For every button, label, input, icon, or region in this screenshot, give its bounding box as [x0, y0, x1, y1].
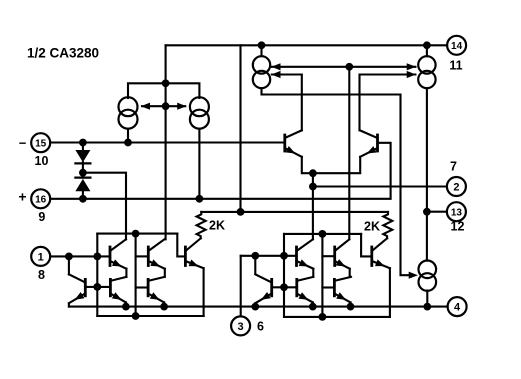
wire diode midpoint tap [83, 173, 126, 240]
junction dot (284,255.8) [280, 252, 288, 260]
label 8 [38, 268, 45, 282]
wire node B horizontal y=233.9 [284, 233, 361, 235]
junction dot (125.9,306.6) [122, 303, 130, 311]
resistor R1 2K (left) [197, 212, 206, 238]
wire CS3 bottom to CS5 arrow run [262, 88, 410, 275]
svg-text:7: 7 [450, 160, 457, 174]
label minus [19, 135, 27, 150]
svg-text:4: 4 [454, 302, 461, 314]
junction dot (427.3,306.6) [423, 303, 431, 311]
junction dot (165.6,106.2) [162, 102, 170, 110]
pin 15 terminal [31, 133, 50, 152]
label 2K right [364, 220, 380, 234]
transistor Q6A-lower [148, 277, 165, 307]
wire bias vertical x=240.5 [239, 45, 241, 212]
wire pin 15 net (- input to Q1A base) [50, 141, 285, 143]
wire Q4B collector drop [254, 256, 256, 274]
svg-text:10: 10 [35, 154, 49, 168]
junction dot (255.3,306.6) [251, 303, 259, 311]
junction dot (312.9,186.5) [309, 183, 317, 191]
transistor Q3B [372, 238, 390, 268]
transistor Q5A-lower [110, 277, 126, 307]
svg-text:−: − [19, 135, 27, 150]
svg-text:15: 15 [35, 138, 47, 149]
current source CS5 (output lower right) [419, 261, 437, 291]
wire resistor top tie y=211.9 [201, 211, 388, 213]
label 9 [38, 210, 45, 224]
wire vertical x=349.3 (mirror line to Q2B2 collector) [348, 67, 350, 240]
junction dot (82.9,142.5) [79, 139, 87, 147]
arrowhead line2 left [271, 71, 280, 78]
junction dot (199.4,198.8) [196, 195, 204, 203]
junction dot (97.3,256.4) [93, 253, 101, 261]
wire pin 1 net [50, 255, 110, 257]
wire top rail (pin 14 net) [166, 44, 448, 46]
svg-text:13: 13 [451, 207, 463, 218]
junction dot (312.9,173.2) [309, 169, 317, 177]
pin 1 terminal [31, 247, 50, 266]
label 10 [35, 154, 49, 168]
junction dot (426.9,211.7) [423, 208, 431, 216]
wire vertical x=135.6 [135, 234, 137, 316]
transistor Q1B-diff (right of diff pair) [360, 130, 378, 157]
transistor Q5B-lower [297, 277, 314, 307]
svg-text:2: 2 [453, 181, 459, 193]
arrowhead left-mirror right [177, 103, 186, 110]
wire CS4 bottom vertical [426, 88, 428, 260]
wire Q5A base tap [136, 286, 149, 288]
wire vertical x=165.6 (top rail to Q2B collector) [165, 45, 167, 239]
junction dot (349.3,66.8) [345, 63, 353, 71]
wire node B right drop to Q3B base [361, 234, 372, 257]
junction dot (322.4,233.9) [319, 230, 327, 238]
pin 3 terminal [231, 316, 250, 335]
wire node A left drop x=97.3 [96, 234, 98, 316]
wire left mirror coupling arrow [142, 105, 185, 107]
transistor Q1A-diff (left of diff pair) [285, 130, 302, 157]
junction dot (255.3,255.8) [251, 252, 259, 260]
junction dot (135.6,233.6) [132, 230, 140, 238]
wire CS4 top drop [426, 45, 428, 56]
wire left mirror CS2 bottom drop [198, 129, 200, 199]
wire Q5B base tap [322, 286, 334, 288]
svg-text:9: 9 [38, 210, 45, 224]
current source CS2 (left mirror right) [190, 97, 209, 129]
arrowhead left-mirror left [141, 103, 150, 110]
transistor Q1A [110, 239, 126, 277]
junction dot (135.6,316) [132, 312, 140, 320]
label 12 [451, 220, 465, 234]
svg-text:1/2 CA3280: 1/2 CA3280 [27, 46, 99, 61]
wire node A right drop to Q3A base [177, 234, 185, 257]
wire coupling arrow line 2 right segment [360, 75, 416, 131]
wire vertical x=312.9 (emitter node to Q1B2 collector) [312, 173, 314, 239]
transistor Q6B-lower [334, 277, 351, 307]
transistor Q2B2 [335, 239, 350, 277]
label 6 [257, 320, 264, 334]
current source CS3 (top left) [253, 56, 270, 88]
arrowhead line2 right [407, 71, 416, 78]
wire bottom rail (pin 4 net) [69, 306, 448, 308]
diode D1 [75, 143, 90, 178]
svg-text:+: + [18, 189, 26, 205]
junction dot (312.8,306.6) [309, 303, 317, 311]
junction dot (164.1,306.6) [160, 303, 168, 311]
junction dot (97.3,286.9) [93, 283, 101, 291]
transistor Q4A [69, 274, 85, 306]
pin 14 terminal [447, 36, 466, 55]
label 11 [449, 59, 462, 73]
diode D2 [75, 178, 90, 199]
svg-text:14: 14 [451, 41, 463, 52]
wire diff pair emitter node [302, 157, 360, 173]
wire Q3B emitter drop [389, 268, 391, 317]
wire coupling arrow line 1 [272, 66, 416, 68]
transistor Q4B [255, 274, 271, 306]
label 7 [450, 160, 457, 174]
arrowhead into CS5 [409, 272, 418, 279]
wire Q4A/Q5A base tie [85, 286, 110, 288]
label plus [18, 189, 26, 205]
svg-text:16: 16 [35, 195, 47, 206]
pin 13 terminal [447, 202, 466, 221]
junction dot (82.9,198.8) [79, 195, 87, 203]
svg-text:3: 3 [238, 321, 244, 333]
junction dot (128,142.5) [124, 139, 132, 147]
wire CS3 top drop [260, 45, 262, 56]
wire pin 3 drop [240, 256, 242, 317]
svg-text:11: 11 [449, 59, 462, 73]
wire CS5 bottom drop [426, 291, 428, 307]
svg-text:1: 1 [38, 251, 44, 263]
transistor Q2A [148, 239, 165, 277]
svg-text:6: 6 [257, 320, 264, 334]
wire rail2 right cluster [284, 316, 390, 318]
wire rail2 left cluster [97, 315, 203, 317]
resistor R2 2K (right) [383, 212, 392, 238]
wire left mirror CS1 bottom drop [127, 129, 129, 143]
label 2K left [209, 219, 225, 233]
junction dot (261.5,45.3) [258, 41, 266, 49]
wire pin 13 stub [427, 211, 447, 213]
transistor Q3A [185, 238, 203, 268]
wire Q4A collector drop [68, 256, 70, 274]
wire coupling arrow line 2 left segment [272, 75, 302, 131]
current source CS4 (top right) [418, 56, 435, 88]
wire node A horizontal y=233.6 [97, 233, 177, 235]
junction dot (165.6,83.3) [162, 79, 170, 87]
svg-text:8: 8 [38, 268, 45, 282]
junction dot (322.4,316.9) [319, 313, 327, 321]
junction dot (284,287.3) [280, 283, 288, 291]
svg-text:12: 12 [451, 220, 465, 234]
pin 16 terminal [31, 189, 50, 208]
svg-text:2K: 2K [364, 220, 380, 234]
current source CS1 (left mirror left) [119, 97, 138, 129]
arrowhead line1 right [407, 63, 416, 70]
wire pin 3 net horizontal [241, 255, 297, 257]
junction dot (240.5,211.9) [237, 208, 245, 216]
pin 4 terminal [448, 297, 467, 316]
svg-text:2K: 2K [209, 219, 225, 233]
junction dot (350.5,306.6) [347, 303, 355, 311]
pin 2 terminal [447, 177, 466, 196]
transistor Q1B2 [297, 239, 314, 277]
junction dot (426.9,45.3) [423, 41, 431, 49]
wire pin 16 net (+ input to Q1B base) [50, 143, 390, 199]
label 1/2 CA3280 [27, 46, 99, 61]
wire Q2A base tap [136, 255, 149, 257]
wire Q2B2 base tap [322, 255, 334, 257]
wire left mirror top tie [128, 83, 199, 98]
junction dot (82.9,172.7) [79, 169, 87, 177]
junction dot (68.9,256.4) [65, 253, 73, 261]
arrowhead line1 left [271, 63, 280, 70]
wire vertical x=322.4 [321, 234, 323, 317]
wire Q3A emitter drop [203, 268, 205, 316]
wire pin 2 net [313, 185, 447, 187]
wire node B left drop x=284 [283, 234, 285, 317]
wire Q4B/Q5B base tie [272, 286, 297, 288]
